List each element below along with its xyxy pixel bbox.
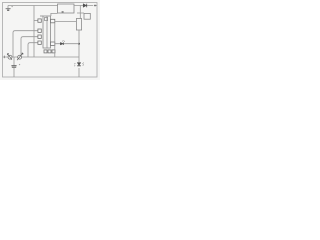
IC U1 pin pad right 1 <box>51 19 55 23</box>
IC U1 pin pad left 2 <box>38 29 41 32</box>
wire top rail <box>8 5 58 7</box>
wire LED net <box>55 43 79 45</box>
wire IC right bus down <box>54 23 56 57</box>
wire loop to pin 2 <box>13 31 38 57</box>
wire resistor bottom lead <box>78 30 80 62</box>
potentiometer P1 <box>8 55 12 59</box>
IC U1 top overhang <box>40 15 43 17</box>
rail terminal tick <box>3 56 5 59</box>
potentiometer P2 <box>18 55 22 59</box>
IC U1 pin pad left 4 <box>38 41 41 44</box>
capacitor C1 lead top <box>13 57 15 65</box>
wire drop to node rail <box>79 6 81 19</box>
potentiometer P1 arrow <box>7 54 12 60</box>
IC U1 pin pad bottom 2 <box>48 50 51 53</box>
wire battery to top rail <box>7 6 9 9</box>
IC U1 pin pad left 1 <box>38 19 41 22</box>
wire IC top to module <box>51 13 58 16</box>
diode D2 <box>60 40 65 45</box>
wire IC pin to resistor <box>55 20 77 22</box>
IC U1 pin pad left 3 <box>38 35 41 38</box>
border frame <box>3 3 98 78</box>
diode D1 <box>83 4 87 8</box>
IC U1 pin pad bottom 1 <box>44 50 47 53</box>
wire LED to bottom frame <box>78 68 80 77</box>
wire module to right frame <box>74 5 93 7</box>
potentiometer P2 arrow <box>17 53 23 60</box>
resistor R1 <box>76 19 81 31</box>
capacitor C1 plates <box>11 66 16 68</box>
wire bottom rail <box>3 56 80 58</box>
capacitor C1 plus label <box>19 64 20 65</box>
wire loop to pin 3 <box>21 37 38 57</box>
node junction dot <box>78 43 80 45</box>
transformer T1 inner mark <box>62 11 64 13</box>
capacitor C1 lead bottom <box>13 68 15 77</box>
wire loop to pin 4 <box>28 43 38 57</box>
wire terminal to frame <box>96 5 97 7</box>
battery B1 <box>6 9 11 11</box>
wire bus to pin 1 <box>34 20 38 22</box>
battery plus label <box>11 6 12 7</box>
IC U1 notch mark <box>45 17 48 20</box>
IC U1 inner line <box>46 16 48 48</box>
IC U1 body <box>43 16 51 48</box>
IC U1 pin pad bottom 3 <box>52 50 55 53</box>
wire vertical bus x34 <box>33 6 35 58</box>
output terminal dot <box>94 5 96 7</box>
transformer T1 box <box>58 4 75 13</box>
IC U1 pin pad right 2 <box>51 42 55 45</box>
wire node rail <box>77 12 84 14</box>
LED D3 <box>74 63 84 67</box>
capacitor C2 box <box>84 13 90 19</box>
